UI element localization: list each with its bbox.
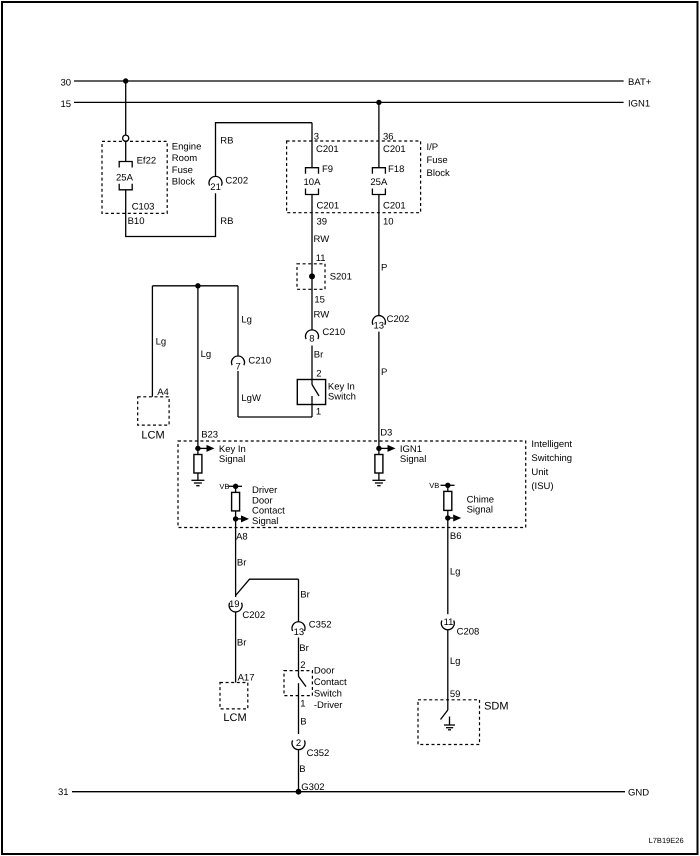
svg-text:19: 19 [229, 599, 240, 610]
LCM module box A17 [220, 683, 248, 725]
svg-text:Switching: Switching [531, 453, 572, 464]
node VB driver [219, 482, 242, 491]
svg-text:C208: C208 [457, 627, 480, 638]
svg-text:Br: Br [237, 638, 247, 649]
svg-text:LCM: LCM [223, 712, 246, 724]
connector 19 C202 [229, 599, 265, 621]
svg-text:Unit: Unit [531, 467, 548, 478]
connector 11 C208 [441, 617, 479, 638]
svg-text:A8: A8 [236, 532, 248, 543]
svg-text:Br: Br [300, 590, 310, 601]
resistor at B23 [194, 448, 202, 480]
svg-text:1: 1 [300, 699, 305, 710]
svg-text:Block: Block [427, 168, 450, 179]
svg-text:-Driver: -Driver [314, 700, 343, 711]
connector 13 C202 [372, 314, 409, 332]
svg-text:Lg: Lg [450, 656, 461, 667]
svg-text:LCM: LCM [141, 430, 164, 442]
wire to LCM A17 [236, 612, 255, 684]
svg-text:13: 13 [374, 321, 385, 332]
svg-text:B: B [299, 764, 305, 775]
svg-text:VB: VB [219, 482, 229, 491]
ground inside SDM [444, 717, 455, 730]
ground at B23 [191, 480, 204, 485]
Door Contact Switch -Driver [284, 666, 347, 735]
svg-text:21: 21 [210, 182, 221, 193]
svg-text:RB: RB [220, 216, 233, 227]
wire right branch down [299, 579, 310, 622]
Key In Switch [297, 380, 356, 418]
wire into F9 pin 3 [312, 123, 339, 168]
svg-text:B10: B10 [128, 216, 145, 227]
svg-text:C352: C352 [309, 620, 332, 631]
svg-text:Contact: Contact [314, 677, 347, 688]
svg-text:Lg: Lg [241, 315, 252, 326]
svg-text:RW: RW [314, 234, 330, 245]
svg-text:59: 59 [450, 689, 461, 700]
svg-text:1: 1 [316, 407, 321, 418]
svg-text:B23: B23 [201, 430, 218, 441]
svg-text:2: 2 [296, 738, 301, 749]
junction G302 [296, 789, 302, 795]
svg-text:7: 7 [236, 362, 241, 373]
svg-text:Room: Room [172, 153, 197, 164]
splice S201 [297, 264, 352, 290]
svg-text:C201: C201 [383, 201, 406, 212]
svg-text:Door: Door [314, 666, 335, 677]
wire A8 down [236, 528, 248, 598]
wire IGN1 drop into F18 pin 36 [379, 102, 406, 167]
svg-text:SDM: SDM [484, 701, 508, 713]
node B23 Key In Signal [195, 444, 246, 465]
connector 8 C210 [306, 327, 346, 345]
connector 13 C352 [292, 620, 332, 639]
svg-text:36: 36 [383, 132, 394, 143]
Engine Room Fuse Block box [102, 141, 201, 213]
svg-text:C210: C210 [322, 327, 345, 338]
svg-text:D3: D3 [380, 428, 392, 439]
svg-text:10: 10 [383, 217, 394, 228]
wire down to LCM A4 [152, 286, 168, 398]
svg-text:BAT+: BAT+ [628, 77, 652, 88]
fuse F9 10A [304, 164, 334, 195]
junction on IGN1 rail [376, 100, 381, 105]
svg-text:25A: 25A [370, 177, 388, 188]
wire BAT+ rail 30 [61, 77, 652, 89]
svg-text:C201: C201 [317, 201, 340, 212]
connector terminal circle [123, 135, 129, 141]
svg-text:Br: Br [237, 558, 247, 569]
connector 2 C352 [292, 738, 329, 759]
wire P down to connector 13 [379, 195, 387, 316]
svg-text:GND: GND [628, 788, 649, 799]
svg-text:Br: Br [314, 350, 324, 361]
svg-text:C202: C202 [387, 314, 410, 325]
svg-text:LgW: LgW [241, 393, 261, 404]
svg-text:F9: F9 [322, 164, 333, 175]
wire GND rail 31 [58, 787, 649, 799]
svg-text:C352: C352 [307, 748, 330, 759]
svg-text:Signal: Signal [252, 516, 278, 527]
wire LgW horizontal [238, 393, 312, 417]
I/P Fuse Block box [287, 141, 450, 213]
svg-text:Signal: Signal [400, 454, 426, 465]
svg-text:Signal: Signal [467, 505, 493, 516]
svg-text:Lg: Lg [450, 567, 461, 578]
junction on BAT+ rail [123, 78, 128, 83]
svg-text:C201: C201 [383, 144, 406, 155]
svg-text:8: 8 [309, 334, 314, 345]
ground at D3 [372, 480, 385, 485]
svg-text:30: 30 [61, 78, 72, 89]
wire to Key In Switch [312, 346, 323, 380]
svg-text:F18: F18 [388, 164, 404, 175]
svg-text:11: 11 [444, 617, 454, 628]
svg-text:B6: B6 [450, 531, 462, 542]
svg-text:Signal: Signal [219, 454, 245, 465]
wire down to ISU B23 [198, 286, 218, 449]
svg-text:RB: RB [220, 136, 233, 147]
svg-text:C210: C210 [248, 356, 271, 367]
svg-text:IGN1: IGN1 [628, 99, 650, 110]
resistor chime [444, 485, 452, 527]
resistor driver door [232, 486, 240, 527]
connector 7 C210 [232, 356, 272, 373]
fuse Ef22 25A [116, 141, 156, 190]
wire IGN1 rail 15 [61, 99, 651, 111]
Intelligent Switching Unit box [178, 439, 572, 528]
svg-text:31: 31 [58, 787, 69, 798]
wire F9 down through S201 [311, 195, 313, 330]
svg-text:Fuse: Fuse [427, 155, 448, 166]
svg-text:Ef22: Ef22 [137, 156, 157, 167]
svg-text:P: P [381, 263, 387, 274]
wire C202 up and over to F9 [216, 123, 313, 177]
svg-text:Block: Block [172, 176, 195, 187]
svg-text:C201: C201 [316, 144, 339, 155]
svg-text:Engine: Engine [172, 142, 202, 153]
svg-text:Switch: Switch [314, 689, 342, 700]
wire fuse to C202 [126, 190, 216, 237]
svg-text:25A: 25A [116, 173, 134, 184]
wire to G302 [299, 750, 325, 793]
svg-text:B: B [300, 717, 306, 728]
svg-text:C103: C103 [132, 202, 155, 213]
svg-text:2: 2 [316, 369, 321, 380]
svg-text:11: 11 [316, 253, 326, 264]
svg-text:2: 2 [300, 660, 305, 671]
wire connector 7 up to Lg rail [238, 286, 252, 356]
node VB chime [429, 481, 454, 490]
svg-text:10A: 10A [304, 177, 322, 188]
svg-text:Switch: Switch [328, 391, 356, 402]
svg-text:Br: Br [299, 643, 309, 654]
resistor at D3 [375, 448, 383, 480]
svg-text:A17: A17 [238, 673, 255, 684]
svg-text:C202: C202 [242, 610, 265, 621]
LCM module box A4 [138, 397, 169, 442]
svg-text:(ISU): (ISU) [531, 481, 553, 492]
svg-text:C202: C202 [225, 176, 248, 187]
svg-text:39: 39 [317, 217, 328, 228]
connector 21 C202 [209, 176, 248, 194]
wire B6 down [448, 528, 462, 615]
wire P down to ISU D3 [379, 332, 392, 449]
svg-text:Fuse: Fuse [172, 165, 193, 176]
svg-text:15: 15 [314, 295, 325, 306]
svg-text:RW: RW [314, 310, 330, 321]
svg-text:13: 13 [294, 627, 305, 638]
wire to door contact switch [299, 638, 309, 672]
wire branch diagonal [236, 579, 299, 595]
node Driver Door Contact Signal [233, 485, 285, 527]
svg-text:Lg: Lg [201, 349, 212, 360]
SDM module box [418, 700, 509, 745]
svg-text:3: 3 [314, 132, 319, 143]
wire to SDM [448, 630, 461, 700]
wire BAT+ drop to fuse block [125, 81, 127, 135]
svg-text:Intelligent: Intelligent [531, 439, 572, 450]
wire up to connector 7 [237, 371, 239, 417]
svg-text:L7B19E26: L7B19E26 [649, 836, 684, 845]
junction on Lg wire [195, 283, 200, 288]
svg-text:Lg: Lg [156, 337, 167, 348]
node D3 IGN1 Signal [376, 444, 426, 465]
svg-text:15: 15 [61, 99, 72, 110]
svg-text:S201: S201 [330, 272, 352, 283]
wire Lg horizontal [152, 285, 238, 287]
svg-text:I/P: I/P [427, 142, 439, 153]
svg-text:P: P [381, 367, 387, 378]
svg-text:VB: VB [429, 481, 439, 490]
node Chime Signal [445, 495, 494, 522]
fuse F18 25A [370, 164, 404, 195]
switch to ground inside SDM pin 59 [441, 700, 448, 720]
